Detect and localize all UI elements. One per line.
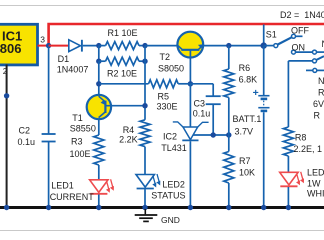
svg-text:CURRENT: CURRENT — [50, 192, 95, 202]
node T2 base / R5 / C3 — [188, 81, 193, 86]
svg-text:N: N — [318, 76, 324, 86]
resistor R3 100E — [94, 135, 104, 165]
svg-text:LED1: LED1 — [51, 180, 74, 190]
svg-text:BATT.1: BATT.1 — [233, 114, 262, 124]
wire R1R2 left vertical — [98, 46, 100, 62]
resistor R8 2.2E — [283, 127, 293, 156]
node R2 right — [142, 59, 147, 64]
svg-text:C3: C3 — [194, 99, 206, 109]
svg-text:R4: R4 — [123, 125, 135, 135]
connector row 3 — [306, 69, 313, 71]
wire T2 base down — [189, 51, 191, 84]
svg-text:0.1u: 0.1u — [193, 108, 211, 118]
node D1-R1-R2 — [96, 43, 101, 48]
svg-text:330E: 330E — [157, 101, 178, 111]
svg-text:LED2: LED2 — [162, 179, 185, 189]
svg-text:1N4007: 1N4007 — [57, 64, 89, 74]
wire R4 to LED2 — [144, 147, 146, 175]
svg-text:R2 10E: R2 10E — [107, 69, 137, 79]
svg-text:LED3: LED3 — [307, 167, 324, 177]
svg-text:S1: S1 — [266, 29, 277, 39]
node T1 base — [142, 103, 147, 108]
wire TL431 ref row — [194, 134, 229, 136]
resistor R6 6.8K — [228, 46, 230, 69]
node on pin2 lead — [4, 93, 9, 98]
svg-text:GND: GND — [161, 215, 180, 225]
bus node x6.6 — [4, 205, 9, 210]
resistor R2 10E — [106, 57, 140, 65]
node S1 pole / battery — [261, 42, 267, 48]
bus node x288.4 — [286, 205, 291, 210]
bus node x98.8 — [96, 205, 101, 210]
node T1 emitter branch — [96, 81, 101, 86]
svg-text:R6: R6 — [239, 63, 251, 73]
shunt reg IC2 TL431 — [189, 84, 191, 127]
svg-text:+: + — [253, 87, 259, 99]
node R1 right — [142, 43, 147, 48]
transistor T2 S8050 — [177, 32, 203, 58]
wire LED3 cathode — [287, 187, 289, 207]
bus node x228.8 — [226, 205, 231, 210]
capacitor C3 — [190, 83, 213, 85]
ground bus — [0, 206, 324, 209]
svg-text:C2: C2 — [19, 126, 31, 136]
svg-text:OFF: OFF — [291, 26, 309, 36]
wire C2 to bus — [48, 142, 50, 207]
svg-text:IC2: IC2 — [163, 131, 177, 141]
node R2 left — [96, 59, 101, 64]
node C3-ref — [211, 132, 216, 137]
LED1 current indicator — [90, 180, 108, 193]
wire LED1 cathode — [98, 195, 100, 207]
node R6 top — [226, 43, 231, 48]
bus node x190.4 — [188, 205, 193, 210]
resistor R1 10E — [106, 42, 140, 50]
wire battery riser — [263, 25, 265, 46]
svg-text:R8: R8 — [295, 132, 307, 142]
wire T2 emitter to switch — [203, 45, 264, 47]
svg-text:T1: T1 — [72, 113, 83, 123]
diode D1 — [69, 40, 81, 52]
wire LED branch top — [287, 61, 289, 127]
wire IC1 pin3 output — [38, 45, 49, 47]
resistor R5 330E — [149, 80, 179, 88]
frame top border — [0, 5, 324, 7]
battery BATT.1 — [263, 46, 265, 95]
resistor R7 10K — [228, 135, 230, 152]
svg-text:R: R — [318, 88, 324, 98]
svg-text:S8050: S8050 — [158, 64, 184, 74]
wire T1 emitter node vertical — [98, 61, 100, 95]
frame bottom border — [0, 230, 324, 232]
wire T1 base — [107, 105, 146, 107]
svg-text:0.1u: 0.1u — [18, 137, 36, 147]
wire IC1 pin2 ground lead — [6, 65, 8, 207]
wire C2 branch upper — [48, 46, 50, 134]
svg-text:2.2E, 1: 2.2E, 1 — [294, 144, 323, 154]
svg-text:ON: ON — [292, 43, 306, 53]
svg-text:7806: 7806 — [0, 41, 21, 56]
regulator IC1 7806 — [0, 24, 38, 65]
svg-text:3: 3 — [40, 35, 45, 45]
LED3 white 1W — [280, 172, 298, 185]
svg-text:D1: D1 — [58, 54, 70, 64]
svg-text:1W: 1W — [307, 178, 321, 188]
svg-text:R1 10E: R1 10E — [108, 28, 138, 38]
node divider R6R7 — [226, 132, 231, 137]
svg-text:STATUS: STATUS — [151, 191, 185, 201]
svg-text:WHITE: WHITE — [307, 189, 324, 199]
resistor R4 2.2K — [140, 120, 150, 147]
wire right vertical to T1 base — [144, 46, 146, 120]
wire LED2 cathode — [144, 189, 146, 206]
switch S1 — [264, 45, 274, 47]
transistor T1 S8550 — [87, 95, 111, 119]
svg-text:3.7V: 3.7V — [235, 127, 254, 137]
wire T2 collector input — [145, 45, 178, 47]
wire TL431 anode — [189, 141, 191, 206]
svg-text:R: R — [314, 111, 321, 121]
wire battery negative — [263, 112, 265, 206]
svg-text:6.8K: 6.8K — [239, 74, 258, 84]
svg-text:10K: 10K — [239, 168, 255, 178]
bus node x145 — [142, 205, 147, 210]
wire R3 to LED1 — [98, 165, 100, 180]
svg-text:S8550: S8550 — [70, 123, 96, 133]
LED2 status indicator — [136, 175, 154, 188]
svg-text:TL431: TL431 — [161, 143, 187, 153]
wire T1 collector down — [98, 119, 100, 135]
svg-text:2.2K: 2.2K — [119, 135, 138, 145]
wire +V red rail — [49, 24, 324, 46]
svg-text:6V: 6V — [313, 99, 324, 109]
svg-text:R3: R3 — [71, 137, 83, 147]
node IC1 output — [46, 43, 51, 48]
ground symbol — [144, 209, 146, 214]
svg-text:D2 = 1N4007: D2 = 1N4007 — [280, 10, 324, 20]
connector row 2 — [288, 60, 312, 62]
bus node x263.7 — [261, 205, 266, 210]
svg-text:T2: T2 — [160, 52, 171, 62]
wire R8 to LED3 — [287, 156, 289, 173]
capacitor C2 — [42, 133, 56, 135]
diode D1 anode wire — [49, 45, 69, 47]
svg-text:100E: 100E — [70, 149, 91, 159]
svg-text:R5: R5 — [158, 91, 170, 101]
svg-text:R7: R7 — [239, 156, 251, 166]
bus node x48.6 — [46, 205, 51, 210]
wire D1 cathode — [83, 45, 99, 47]
